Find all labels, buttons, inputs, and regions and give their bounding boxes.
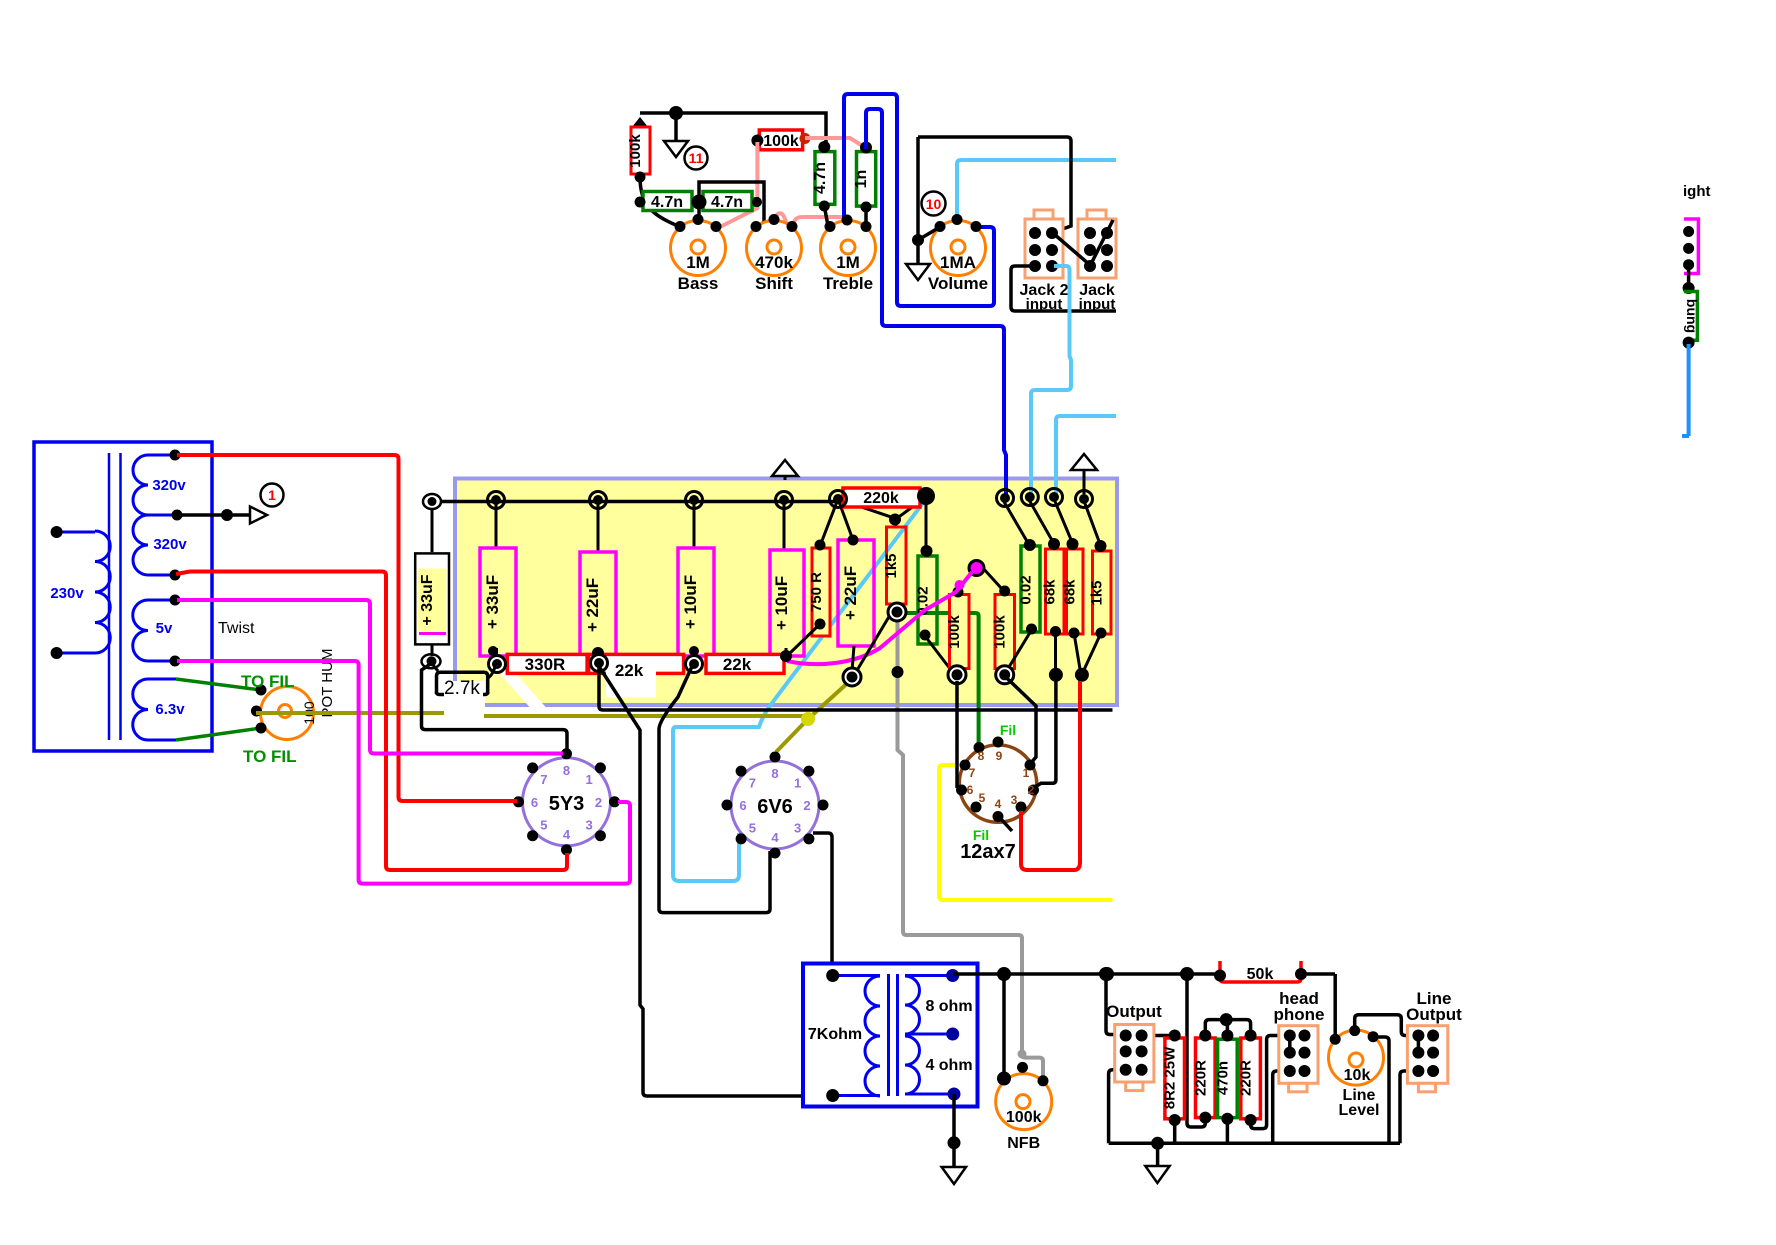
svg-text:Output: Output <box>1406 1005 1462 1024</box>
svg-text:6: 6 <box>739 798 746 813</box>
svg-text:5v: 5v <box>156 620 173 637</box>
svg-text:4.7n: 4.7n <box>711 194 743 211</box>
svg-text:220R: 220R <box>1238 1060 1255 1096</box>
svg-text:220R: 220R <box>1192 1060 1209 1096</box>
svg-text:4: 4 <box>771 830 779 845</box>
svg-text:100k: 100k <box>1006 1109 1042 1126</box>
svg-text:1: 1 <box>585 772 592 787</box>
svg-text:7: 7 <box>749 775 756 790</box>
svg-text:68k: 68k <box>1042 579 1059 605</box>
svg-text:Level: Level <box>1339 1102 1380 1119</box>
svg-text:+ 10uF: + 10uF <box>681 575 700 629</box>
svg-text:7Kohm: 7Kohm <box>808 1026 862 1043</box>
svg-text:1n: 1n <box>853 170 870 189</box>
svg-text:1: 1 <box>794 775 801 790</box>
svg-text:phone: phone <box>1274 1005 1325 1024</box>
svg-text:+ 22uF: + 22uF <box>583 578 602 632</box>
svg-text:NFB: NFB <box>1007 1135 1040 1152</box>
svg-text:+ 33uF: + 33uF <box>419 574 436 625</box>
svg-text:230v: 230v <box>50 585 84 602</box>
svg-text:8: 8 <box>771 766 778 781</box>
svg-text:+ 22uF: + 22uF <box>841 566 860 620</box>
svg-text:2: 2 <box>595 795 602 810</box>
svg-text:320v: 320v <box>152 477 186 494</box>
svg-text:3: 3 <box>794 821 801 836</box>
svg-text:1k5: 1k5 <box>1089 580 1106 605</box>
svg-text:100k: 100k <box>627 134 644 168</box>
svg-text:bung: bung <box>1684 299 1700 333</box>
svg-text:4.7n: 4.7n <box>812 162 829 194</box>
svg-text:10k: 10k <box>1344 1067 1371 1084</box>
svg-text:4 ohm: 4 ohm <box>925 1057 972 1074</box>
svg-text:input: input <box>1026 296 1063 313</box>
svg-text:2.7k: 2.7k <box>444 678 480 699</box>
svg-text:11: 11 <box>689 150 704 166</box>
svg-text:470k: 470k <box>755 253 793 272</box>
svg-text:4: 4 <box>563 827 571 842</box>
svg-text:22k: 22k <box>615 661 644 680</box>
svg-text:6V6: 6V6 <box>757 796 793 818</box>
svg-text:100k: 100k <box>763 133 799 150</box>
svg-text:1M: 1M <box>836 253 860 272</box>
svg-text:8: 8 <box>978 749 985 763</box>
svg-text:Treble: Treble <box>823 274 873 293</box>
svg-text:320v: 320v <box>153 536 187 553</box>
svg-text:5: 5 <box>540 817 547 832</box>
svg-text:8: 8 <box>563 763 570 778</box>
svg-text:4: 4 <box>995 797 1002 811</box>
svg-text:12ax7: 12ax7 <box>960 841 1016 863</box>
svg-text:100k: 100k <box>946 615 963 649</box>
svg-text:8 ohm: 8 ohm <box>925 998 972 1015</box>
svg-text:7: 7 <box>540 772 547 787</box>
svg-text:3: 3 <box>585 817 592 832</box>
svg-text:1: 1 <box>268 487 276 503</box>
svg-text:Twist: Twist <box>218 620 255 637</box>
svg-text:330R: 330R <box>525 655 566 674</box>
svg-text:input: input <box>1079 296 1116 313</box>
svg-text:ight: ight <box>1683 183 1711 200</box>
svg-text:+ 33uF: + 33uF <box>483 575 502 629</box>
svg-text:2: 2 <box>1028 783 1035 797</box>
svg-text:68k: 68k <box>1062 579 1079 605</box>
svg-text:50k: 50k <box>1247 966 1274 983</box>
svg-text:1: 1 <box>1023 766 1030 780</box>
svg-text:4.7n: 4.7n <box>651 194 683 211</box>
svg-text:6.3v: 6.3v <box>155 701 185 718</box>
svg-text:7: 7 <box>969 766 976 780</box>
svg-text:Shift: Shift <box>755 274 793 293</box>
svg-text:5: 5 <box>979 791 986 805</box>
svg-text:Volume: Volume <box>928 274 988 293</box>
svg-text:0.02: 0.02 <box>1018 575 1035 604</box>
svg-text:8R2 25W: 8R2 25W <box>1162 1046 1179 1109</box>
svg-text:3: 3 <box>1011 793 1018 807</box>
svg-text:+ 10uF: + 10uF <box>772 576 791 630</box>
svg-text:9: 9 <box>996 749 1003 763</box>
svg-text:100k: 100k <box>992 615 1009 649</box>
svg-text:470n: 470n <box>1214 1061 1231 1095</box>
svg-text:5Y3: 5Y3 <box>549 793 585 815</box>
svg-text:22k: 22k <box>723 655 752 674</box>
svg-text:1k5: 1k5 <box>883 553 900 578</box>
svg-text:TO FIL: TO FIL <box>243 747 297 766</box>
svg-text:5: 5 <box>749 821 756 836</box>
svg-text:10: 10 <box>926 196 942 212</box>
svg-text:Output: Output <box>1106 1002 1162 1021</box>
svg-text:220k: 220k <box>863 490 899 507</box>
svg-text:1MA: 1MA <box>940 253 976 272</box>
svg-text:750 R: 750 R <box>808 572 825 612</box>
svg-text:POT HUM: POT HUM <box>319 649 336 718</box>
svg-text:Bass: Bass <box>678 274 719 293</box>
svg-text:6: 6 <box>967 783 974 797</box>
svg-text:6: 6 <box>531 795 538 810</box>
svg-text:TO FIL: TO FIL <box>241 672 295 691</box>
svg-text:1M: 1M <box>686 253 710 272</box>
svg-text:Fil: Fil <box>1000 722 1016 738</box>
svg-text:2: 2 <box>803 798 810 813</box>
